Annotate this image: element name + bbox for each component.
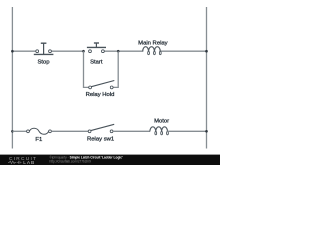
wire bottom rung: F1 to Relay sw1 xyxy=(51,130,88,132)
svg-text:Motor: Motor xyxy=(154,118,169,124)
switch SW3 Relay Hold xyxy=(89,81,115,89)
node B junction dot xyxy=(117,50,120,53)
wire bottom rung: left rail to F1 xyxy=(12,130,26,132)
wire top rung: Main Relay to right rail xyxy=(161,50,207,52)
svg-text:LAB: LAB xyxy=(23,160,35,165)
wire relay-hold branch right rise xyxy=(113,51,118,87)
junction dot bottom wire at left rail xyxy=(11,130,14,133)
fuse F1 xyxy=(27,128,52,134)
pushbutton SW1 Stop (normally closed) xyxy=(34,43,54,54)
wire top rung: node B to Main Relay xyxy=(104,50,143,52)
wire top rung: left rail to Stop xyxy=(12,50,35,52)
svg-text:Relay Hold: Relay Hold xyxy=(86,92,115,98)
wire right vertical rail xyxy=(206,7,208,149)
wire bottom rung: Relay sw1 to Motor xyxy=(113,130,150,132)
CircuitLab logo wordmark xyxy=(8,156,37,166)
wire relay-hold branch left drop xyxy=(84,51,89,87)
svg-text:F1: F1 xyxy=(35,137,42,143)
footer bar xyxy=(0,155,220,165)
inductor Motor coil xyxy=(150,127,168,135)
svg-text:Main Relay: Main Relay xyxy=(138,40,168,46)
inductor Main Relay coil xyxy=(143,47,161,55)
junction dot top wire at left rail xyxy=(11,50,14,53)
wire top rung: Stop to node A xyxy=(51,50,83,52)
svg-text:Relay sw1: Relay sw1 xyxy=(87,136,114,142)
junction dot top wire at right rail xyxy=(205,50,208,53)
switch SW4 Relay sw1 xyxy=(88,124,114,132)
wire bottom rung: Motor to right rail xyxy=(167,130,206,132)
junction dot bottom wire at right rail xyxy=(205,130,208,133)
svg-text:http://circuitlab.com/c77b2m9: http://circuitlab.com/c77b2m9 xyxy=(50,159,92,163)
svg-text:Start: Start xyxy=(90,59,103,65)
wire left vertical rail xyxy=(11,7,13,149)
node A junction dot xyxy=(82,50,85,53)
pushbutton SW2 Start (normally open) xyxy=(87,43,106,53)
svg-text:Stop: Stop xyxy=(37,60,50,66)
